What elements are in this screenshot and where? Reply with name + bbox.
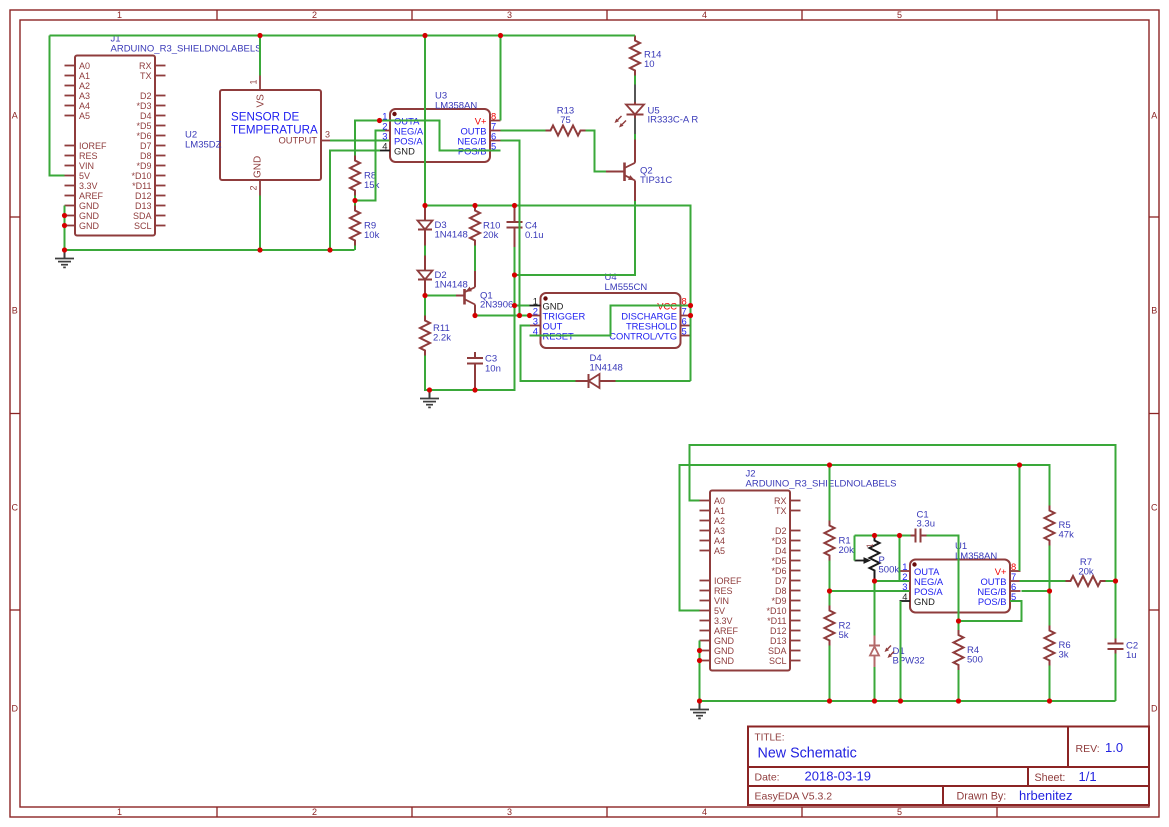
svg-text:EasyEDA V5.3.2: EasyEDA V5.3.2 xyxy=(755,791,833,803)
svg-text:1N4148: 1N4148 xyxy=(435,280,468,291)
svg-text:REV:: REV: xyxy=(1076,743,1100,755)
svg-text:TITLE:: TITLE: xyxy=(755,733,785,744)
svg-text:hrbenitez: hrbenitez xyxy=(1019,788,1072,803)
svg-text:*D9: *D9 xyxy=(136,161,151,171)
sensor U2 LM35DZ xyxy=(185,76,331,196)
op-amp U3 LM358AN xyxy=(380,91,501,163)
capacitor C2 xyxy=(1108,639,1139,662)
wire P bottom to D1 xyxy=(874,581,876,636)
transistor Q2 TIP31C xyxy=(606,140,672,202)
svg-text:1: 1 xyxy=(866,543,875,548)
resistor R7 xyxy=(1066,557,1106,586)
svg-text:A3: A3 xyxy=(714,526,725,536)
photodiode D1 light arrows xyxy=(885,646,895,659)
capacitor C1 xyxy=(911,510,936,543)
svg-text:SENSOR DE: SENSOR DE xyxy=(231,111,300,124)
svg-text:C: C xyxy=(1151,502,1158,512)
junction dots U4 VCC/DISCHARGE xyxy=(688,303,693,318)
svg-text:500: 500 xyxy=(967,655,983,666)
resistor R11 xyxy=(420,316,451,356)
svg-text:1: 1 xyxy=(249,79,259,84)
svg-text:ARDUINO_R3_SHIELDNOLABELS: ARDUINO_R3_SHIELDNOLABELS xyxy=(746,479,897,490)
junction dot U4 GND row xyxy=(512,303,517,308)
svg-text:B: B xyxy=(1151,305,1157,315)
wire gray LED-Q2 xyxy=(634,118,636,134)
wire bottom ground rail xyxy=(700,700,1116,702)
wire R8 to R9 xyxy=(354,196,356,206)
svg-text:2: 2 xyxy=(249,185,259,190)
ground symbol near J2 xyxy=(690,701,709,718)
svg-text:15k: 15k xyxy=(364,180,380,191)
wire U2 VS to rail xyxy=(259,36,261,76)
junction dots bottom ground rail xyxy=(697,698,1052,703)
LED U5 IR333C-A R xyxy=(626,102,698,126)
wire C1 right to R4 node xyxy=(927,536,959,622)
wire node to R11 xyxy=(424,296,426,316)
svg-text:2.2k: 2.2k xyxy=(433,333,451,344)
wire NEG/B to R5/R6 xyxy=(1022,590,1050,592)
svg-text:1N4148: 1N4148 xyxy=(435,230,468,241)
wire J1 5V to rail xyxy=(50,36,65,176)
wire trigger row xyxy=(475,315,530,317)
svg-text:D12: D12 xyxy=(770,626,787,636)
wire OUTB to R13 xyxy=(501,130,546,132)
svg-text:A1: A1 xyxy=(79,71,90,81)
svg-text:1: 1 xyxy=(117,10,122,20)
svg-text:IOREF: IOREF xyxy=(714,576,742,586)
resistor R4 xyxy=(954,630,983,670)
svg-text:*D9: *D9 xyxy=(771,596,786,606)
svg-text:20k: 20k xyxy=(483,230,499,241)
svg-text:*D11: *D11 xyxy=(132,181,151,191)
wire 5V branch rail to U4/D4 xyxy=(425,36,691,382)
svg-text:*D3: *D3 xyxy=(771,536,786,546)
svg-text:D8: D8 xyxy=(140,151,152,161)
svg-text:1/1: 1/1 xyxy=(1079,769,1097,784)
wire J1 GND chain xyxy=(64,206,66,251)
svg-text:RX: RX xyxy=(139,61,152,71)
wire wiper drop xyxy=(854,536,856,561)
title block xyxy=(748,727,1149,806)
frame column ticks xyxy=(217,10,997,817)
resistor R10 xyxy=(470,206,500,246)
svg-text:A4: A4 xyxy=(79,101,90,111)
svg-text:1.0: 1.0 xyxy=(1105,740,1123,755)
junction dots top rail xyxy=(257,33,503,38)
diode D4 1N4148 xyxy=(576,353,623,388)
wire feedback node top xyxy=(855,535,911,537)
diode D3 1N4148 xyxy=(418,206,468,246)
wire R1 to R2 xyxy=(829,561,831,606)
svg-text:4: 4 xyxy=(902,591,907,602)
diode D2 1N4148 xyxy=(418,256,468,296)
wire ground rail J1/U2/U3 xyxy=(65,249,355,251)
svg-text:D12: D12 xyxy=(135,191,152,201)
wire U1 V+ up xyxy=(1019,465,1021,571)
ground symbol below R11/C3 xyxy=(420,390,439,407)
svg-text:4: 4 xyxy=(702,10,707,20)
wire gray R14-LED xyxy=(634,85,636,103)
wire R9 bottom xyxy=(354,246,356,251)
wire R2 bottom xyxy=(829,646,831,702)
junction dot R1/R2 divider xyxy=(827,588,832,593)
svg-text:D4: D4 xyxy=(140,111,152,121)
resistor R8 xyxy=(350,156,380,196)
op-amp U4 LM555CN xyxy=(530,272,692,348)
wire R1 top xyxy=(829,465,831,521)
svg-text:*D10: *D10 xyxy=(766,606,786,616)
resistor R9 xyxy=(350,206,380,246)
wire R13 to Q2 base xyxy=(586,131,607,172)
junction dots trigger row xyxy=(472,313,532,318)
svg-text:4: 4 xyxy=(382,141,387,152)
svg-text:3: 3 xyxy=(507,10,512,20)
wire U3 NEG/B down to trigger xyxy=(501,141,520,316)
svg-text:2N3906: 2N3906 xyxy=(480,300,513,311)
svg-text:GND: GND xyxy=(914,596,935,607)
resistor R2 xyxy=(825,606,851,646)
svg-text:BPW32: BPW32 xyxy=(893,656,925,667)
wire OUTA feedback to POS/B xyxy=(380,121,501,151)
wire J2 5V rail xyxy=(680,465,1050,611)
svg-text:TX: TX xyxy=(140,71,152,81)
wire 5V top rail xyxy=(50,35,636,37)
junction dot R5/R6 divider xyxy=(1047,588,1052,593)
svg-text:A0: A0 xyxy=(79,61,90,71)
svg-text:D13: D13 xyxy=(135,201,152,211)
wire U2 GND down xyxy=(259,196,261,251)
svg-text:3: 3 xyxy=(325,130,330,140)
svg-text:*D6: *D6 xyxy=(136,131,151,141)
svg-text:*D11: *D11 xyxy=(767,616,786,626)
junction dots J2 5V rail xyxy=(827,462,1022,467)
svg-text:RES: RES xyxy=(79,151,98,161)
svg-text:RX: RX xyxy=(774,496,787,506)
svg-text:TIP31C: TIP31C xyxy=(640,175,672,186)
junction dot R7 right node xyxy=(1113,578,1118,583)
svg-text:A2: A2 xyxy=(79,81,90,91)
svg-text:LM35DZ: LM35DZ xyxy=(185,140,222,151)
svg-text:3k: 3k xyxy=(1059,650,1069,661)
svg-text:SCL: SCL xyxy=(134,221,152,231)
svg-text:A5: A5 xyxy=(79,111,90,121)
svg-text:*D10: *D10 xyxy=(131,171,151,181)
wire U3 OUTA to R8 xyxy=(355,121,380,156)
svg-text:A0: A0 xyxy=(714,496,725,506)
svg-text:5: 5 xyxy=(897,807,902,817)
svg-text:ARDUINO_R3_SHIELDNOLABELS: ARDUINO_R3_SHIELDNOLABELS xyxy=(111,44,262,55)
svg-text:IR333C-A R: IR333C-A R xyxy=(648,115,699,126)
svg-text:IOREF: IOREF xyxy=(79,141,107,151)
wire U3 GND to ground rail xyxy=(330,151,380,251)
resistor R13 xyxy=(546,106,586,136)
photodiode D1 BPW32 xyxy=(869,636,925,668)
svg-text:*D5: *D5 xyxy=(771,556,786,566)
svg-text:A1: A1 xyxy=(714,506,725,516)
wire C2 bottom xyxy=(1115,654,1117,702)
svg-text:SDA: SDA xyxy=(133,211,152,221)
svg-text:TX: TX xyxy=(775,506,787,516)
wire C1 left drop xyxy=(899,536,901,582)
svg-text:A5: A5 xyxy=(714,546,725,556)
svg-text:4: 4 xyxy=(702,807,707,817)
svg-text:Drawn By:: Drawn By: xyxy=(957,791,1007,803)
svg-text:LM358AN: LM358AN xyxy=(955,551,997,562)
wire Q2 emitter down xyxy=(515,201,636,275)
svg-text:5: 5 xyxy=(897,10,902,20)
svg-text:SDA: SDA xyxy=(768,646,787,656)
svg-text:1: 1 xyxy=(117,807,122,817)
svg-text:2: 2 xyxy=(312,807,317,817)
wire U2 OUTPUT to U3 POS/A xyxy=(330,140,390,142)
resistor R1 xyxy=(825,521,855,561)
potentiometer P 500k xyxy=(855,536,900,582)
wire D4 to VCC vertical xyxy=(616,380,691,382)
svg-text:*D3: *D3 xyxy=(136,101,151,111)
svg-text:3: 3 xyxy=(507,807,512,817)
wire J2 A0 to R7/C2 node xyxy=(690,445,1116,639)
svg-text:OUTPUT: OUTPUT xyxy=(278,135,317,146)
svg-text:GND: GND xyxy=(253,156,264,178)
svg-text:*D6: *D6 xyxy=(771,566,786,576)
wire U4 OUT to D4 xyxy=(521,326,576,382)
svg-text:10: 10 xyxy=(644,59,655,70)
junction dot P bottom xyxy=(872,578,877,583)
wire R5 to R6 xyxy=(1049,546,1051,626)
svg-text:VIN: VIN xyxy=(79,161,94,171)
junction dots ground rail xyxy=(257,247,332,252)
junction dot C4 bottom xyxy=(512,272,517,277)
connector J1 ARDUINO_R3_SHIELDNOLABELS xyxy=(65,34,262,236)
svg-text:A3: A3 xyxy=(79,91,90,101)
wire C4 to U4 GND xyxy=(515,305,530,307)
junction dots J2 GND pins xyxy=(697,648,702,663)
svg-text:3.3V: 3.3V xyxy=(714,616,733,626)
resistor R5 xyxy=(1045,506,1075,546)
op-amp U1 LM358AN xyxy=(900,541,1021,613)
svg-text:D7: D7 xyxy=(775,576,787,586)
svg-text:2: 2 xyxy=(312,10,317,20)
capacitor C3 xyxy=(467,352,501,390)
svg-text:D2: D2 xyxy=(775,526,787,536)
svg-text:GND: GND xyxy=(79,221,100,231)
svg-text:20k: 20k xyxy=(839,545,855,556)
svg-text:SCL: SCL xyxy=(769,656,787,666)
svg-text:GND: GND xyxy=(79,201,100,211)
wire node to R4 xyxy=(958,621,960,630)
LED U5 emission arrows xyxy=(615,116,627,128)
svg-text:LM358AN: LM358AN xyxy=(435,101,477,112)
junction dot Q1 base node xyxy=(422,293,427,298)
svg-text:D13: D13 xyxy=(770,636,787,646)
svg-text:A2: A2 xyxy=(714,516,725,526)
wire R14 to LED gap xyxy=(634,76,636,85)
svg-text:Date:: Date: xyxy=(755,772,780,784)
junction dots feedback node xyxy=(872,533,902,538)
svg-text:2018-03-19: 2018-03-19 xyxy=(805,769,872,784)
svg-text:10k: 10k xyxy=(364,230,380,241)
svg-text:VIN: VIN xyxy=(714,596,729,606)
svg-text:Sheet:: Sheet: xyxy=(1035,772,1066,784)
junction dots bottom rail top circuit xyxy=(427,387,478,392)
svg-text:3.3V: 3.3V xyxy=(79,181,98,191)
svg-text:GND: GND xyxy=(714,656,735,666)
wire J2 GND chain xyxy=(699,641,701,702)
title block texts xyxy=(755,733,1124,804)
svg-text:D4: D4 xyxy=(775,546,787,556)
junction dot OUTA xyxy=(377,118,382,123)
wire OUTB to R7 xyxy=(1020,580,1066,582)
wire D2 to Q1 base xyxy=(425,295,456,297)
svg-text:B: B xyxy=(12,305,18,315)
svg-text:VS: VS xyxy=(256,94,267,108)
wire D3-D2 link xyxy=(424,246,426,256)
wire node to NEG/A xyxy=(875,580,910,582)
frame column labels bottom xyxy=(117,807,902,817)
svg-text:AREF: AREF xyxy=(714,626,739,636)
svg-text:1u: 1u xyxy=(1126,650,1137,661)
svg-text:75: 75 xyxy=(560,115,571,126)
svg-text:CONTROL/VTG: CONTROL/VTG xyxy=(609,330,677,341)
capacitor C4 xyxy=(507,206,544,248)
svg-text:47k: 47k xyxy=(1059,530,1075,541)
svg-text:D: D xyxy=(1151,703,1158,713)
svg-text:3.3u: 3.3u xyxy=(917,519,936,530)
connector J2 ARDUINO_R3_SHIELDNOLABELS xyxy=(700,469,897,671)
svg-text:10n: 10n xyxy=(485,364,501,375)
svg-text:500k: 500k xyxy=(879,565,900,576)
wire D1 to ground rail xyxy=(874,667,876,701)
wire divider to U1 POS/A xyxy=(830,590,910,592)
svg-text:5k: 5k xyxy=(839,630,849,641)
transistor Q1 2N3906 xyxy=(456,271,513,316)
wire LED to Q2 collector xyxy=(634,134,636,140)
wire U1 GND down xyxy=(900,601,902,701)
svg-text:0.1u: 0.1u xyxy=(525,230,544,241)
frame row labels left xyxy=(12,110,19,713)
junction dots 5V branch rail xyxy=(422,203,517,208)
svg-text:5: 5 xyxy=(682,326,687,337)
svg-text:GND: GND xyxy=(714,636,735,646)
wire R10 to Q1 emitter xyxy=(474,246,476,272)
svg-text:GND: GND xyxy=(394,145,415,156)
wire R4 bottom xyxy=(958,670,960,701)
svg-text:D: D xyxy=(12,703,19,713)
frame row labels right xyxy=(1151,110,1158,713)
svg-text:A: A xyxy=(1151,110,1157,120)
svg-text:5V: 5V xyxy=(714,606,725,616)
svg-text:AREF: AREF xyxy=(79,191,104,201)
svg-text:GND: GND xyxy=(79,211,100,221)
svg-text:GND: GND xyxy=(714,646,735,656)
wire R6 bottom xyxy=(1049,666,1051,702)
wire R7 right xyxy=(1106,580,1116,582)
junction dots J1 GND xyxy=(62,213,67,253)
svg-text:New Schematic: New Schematic xyxy=(758,746,857,762)
svg-text:20k: 20k xyxy=(1078,567,1094,578)
svg-text:D7: D7 xyxy=(140,141,152,151)
svg-text:LM555CN: LM555CN xyxy=(605,282,648,293)
junction dot R8/R9 xyxy=(352,198,357,203)
svg-text:C: C xyxy=(12,502,19,512)
frame row ticks xyxy=(10,217,1159,610)
svg-text:A: A xyxy=(12,110,18,120)
svg-text:5V: 5V xyxy=(79,171,90,181)
wire U4 RESET to VCC xyxy=(530,306,691,336)
svg-text:RES: RES xyxy=(714,586,733,596)
svg-text:POS/B: POS/B xyxy=(978,596,1007,607)
wire U3 V+ pin8 to rail xyxy=(500,36,502,121)
svg-text:D8: D8 xyxy=(775,586,787,596)
svg-text:A4: A4 xyxy=(714,536,725,546)
junction dot R4 node xyxy=(956,618,961,623)
svg-text:1N4148: 1N4148 xyxy=(590,363,623,374)
resistor R6 xyxy=(1045,626,1071,666)
frame column labels top xyxy=(117,10,902,20)
wire R11 to bottom rail to C4 xyxy=(425,247,515,390)
ground symbol near J1 xyxy=(55,250,74,267)
svg-text:D2: D2 xyxy=(140,91,152,101)
wire divider feedback to NEG/A xyxy=(355,131,385,201)
svg-text:*D5: *D5 xyxy=(136,121,151,131)
wire R4 node to POS/B xyxy=(959,601,1022,621)
resistor R14 xyxy=(630,36,661,76)
